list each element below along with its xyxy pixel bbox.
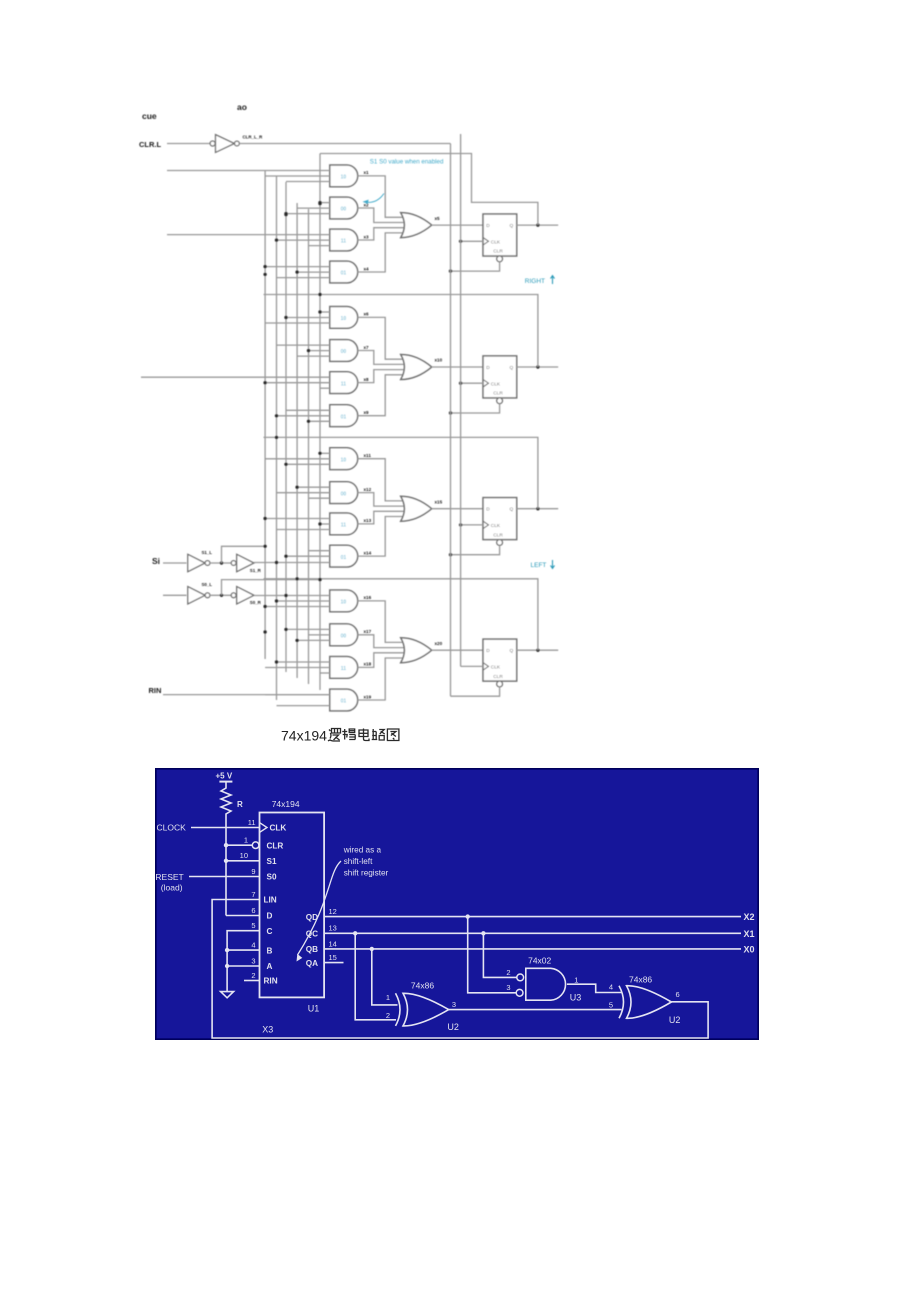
svg-text:6: 6 <box>251 906 255 915</box>
wire stub A9 row1 <box>286 409 330 411</box>
svg-text:x19: x19 <box>364 694 372 699</box>
svg-text:3: 3 <box>251 956 255 965</box>
wire A18 output <box>358 653 404 668</box>
wire A3 output <box>358 228 404 240</box>
and gate A18 (11) <box>330 657 358 679</box>
and gate A16 (10) <box>330 590 358 612</box>
svg-text:x14: x14 <box>364 550 372 555</box>
svg-text:X1: X1 <box>744 929 755 939</box>
svg-text:3: 3 <box>506 983 510 992</box>
wire A1 output <box>358 176 404 217</box>
svg-text:S1 S0 value when enabled: S1 S0 value when enabled <box>370 159 444 166</box>
ground <box>221 992 234 998</box>
svg-text:S1: S1 <box>267 857 277 866</box>
and gate A4 (01) <box>330 261 358 283</box>
caption glyph dian <box>359 729 369 741</box>
wire CLR bus <box>239 143 450 145</box>
svg-text:x13: x13 <box>364 518 372 523</box>
svg-text:11: 11 <box>341 381 347 387</box>
wire A2 output <box>358 208 404 223</box>
wire stub A4 row1 <box>265 266 330 268</box>
svg-text:2: 2 <box>251 971 255 980</box>
wire QC to U3 pin2 <box>481 931 485 935</box>
wire stub A17 row2 <box>309 634 330 636</box>
wire stub A9 row2 <box>277 415 330 417</box>
flip-flop FF2 <box>483 356 517 398</box>
svg-text:11: 11 <box>248 818 256 827</box>
svg-text:S1_R: S1_R <box>250 568 262 573</box>
svg-text:2: 2 <box>386 1011 390 1020</box>
svg-text:12: 12 <box>329 907 337 916</box>
svg-text:CLK: CLK <box>270 824 287 833</box>
wire CLR return FF2 <box>451 404 500 413</box>
wire stub A11 row1 <box>320 452 330 454</box>
svg-text:C: C <box>267 927 273 936</box>
svg-text:Si: Si <box>152 556 160 566</box>
svg-text:1: 1 <box>574 976 578 985</box>
wire stub A11 row3 <box>286 463 330 465</box>
wire stub A2 row3 <box>286 213 330 215</box>
svg-text:A: A <box>267 962 273 971</box>
caption glyph ji <box>342 729 355 740</box>
and gate A13 (11) <box>330 513 358 535</box>
svg-text:S0_R: S0_R <box>250 600 262 605</box>
svg-text:x4: x4 <box>364 266 370 271</box>
wire stub A16 row2 <box>277 600 330 602</box>
wire stub A18 row3 <box>320 672 330 674</box>
wire stub A13 row2 <box>320 523 330 525</box>
svg-text:CLR_L_R: CLR_L_R <box>243 135 264 140</box>
svg-text:+5 V: +5 V <box>216 772 233 781</box>
wire OR3 to FF D <box>432 508 483 510</box>
svg-text:D: D <box>486 648 490 654</box>
wire CLR return FF3 <box>451 545 500 554</box>
wire riser S1_L <box>222 546 266 563</box>
svg-text:R: R <box>237 800 243 809</box>
svg-text:15: 15 <box>329 953 337 962</box>
svg-text:x17: x17 <box>364 629 372 634</box>
svg-text:CLR: CLR <box>493 532 503 538</box>
junction A <box>225 964 229 968</box>
wire stub A8 row2 <box>265 382 330 384</box>
wire OR2 to FF D <box>432 366 483 368</box>
svg-text:10: 10 <box>341 600 347 606</box>
svg-text:X3: X3 <box>262 1025 273 1035</box>
and gate A14 (01) <box>330 545 358 567</box>
wire vertical bus B5 <box>319 154 321 691</box>
svg-text:00: 00 <box>341 349 347 355</box>
xor gate U2a 74x86 <box>396 993 401 1026</box>
svg-text:14: 14 <box>329 939 337 948</box>
svg-text:ao: ao <box>237 102 247 112</box>
svg-text:01: 01 <box>341 271 347 277</box>
svg-text:CLOCK: CLOCK <box>157 823 187 833</box>
svg-text:QB: QB <box>306 945 318 954</box>
inverter S0_R <box>231 593 236 598</box>
wire S1_L input <box>163 562 187 564</box>
annotation arrow <box>298 861 342 955</box>
wire Q1 feedback <box>320 154 538 226</box>
wire stub A2 row1 <box>320 202 330 204</box>
wire stub A8 row3 <box>320 387 330 389</box>
wire stub A1 row2 <box>265 175 330 177</box>
svg-text:10: 10 <box>341 316 347 322</box>
wire A11 output <box>358 459 404 501</box>
wire stub A11 row2 <box>265 458 330 460</box>
or gate O2 <box>401 355 432 380</box>
caption glyph luo <box>328 729 341 742</box>
clr bubble FF2 <box>497 398 503 404</box>
svg-text:U2: U2 <box>447 1022 459 1032</box>
svg-text:00: 00 <box>341 207 347 213</box>
svg-text:RIN: RIN <box>149 686 162 695</box>
clr bubble FF4 <box>497 681 503 687</box>
svg-text:CLK: CLK <box>491 240 501 246</box>
svg-text:CLR: CLR <box>493 249 503 255</box>
svg-text:CLR: CLR <box>267 841 284 850</box>
clk edge triangle <box>260 823 268 833</box>
svg-text:01: 01 <box>341 555 347 561</box>
wire A14 output <box>358 517 404 557</box>
svg-text:9: 9 <box>251 867 255 876</box>
wire between inverters S1_L <box>210 562 231 564</box>
svg-text:shift-left: shift-left <box>344 857 373 866</box>
wire A8 output <box>358 370 404 383</box>
svg-text:74x194: 74x194 <box>272 799 300 809</box>
junction CLR <box>224 843 228 847</box>
svg-text:S0: S0 <box>267 873 277 882</box>
wire stub A1 row3 <box>286 181 330 183</box>
wire stub A2 row2 <box>297 207 330 209</box>
wire vertical bus B1 <box>276 176 278 700</box>
or gate O4 <box>401 638 432 663</box>
wire S0_L input <box>163 594 187 596</box>
svg-text:01: 01 <box>341 699 347 705</box>
wire A6 output <box>358 317 404 359</box>
svg-text:74x194: 74x194 <box>281 728 327 744</box>
svg-text:CLK: CLK <box>491 523 501 529</box>
wire CLK to FF2 <box>461 382 483 384</box>
wire A9 output <box>358 375 404 416</box>
wire stub A6 row3 <box>265 322 330 324</box>
chip U1 74x194 <box>260 813 325 998</box>
wire OR4 to FF D <box>432 649 483 651</box>
svg-text:CLR: CLR <box>493 391 503 397</box>
wire Q1 output <box>517 224 559 226</box>
wire QB to U2a pin1 <box>370 947 374 951</box>
svg-text:D: D <box>486 507 490 513</box>
svg-text:00: 00 <box>341 491 347 497</box>
svg-text:CLK: CLK <box>491 665 501 671</box>
junction dots on buses <box>318 293 321 296</box>
wire OR1 to FF D <box>432 224 483 226</box>
wire X3 feedback to LIN <box>212 900 708 1039</box>
svg-text:shift register: shift register <box>344 869 389 878</box>
svg-text:13: 13 <box>329 924 337 933</box>
svg-text:x5: x5 <box>435 216 441 221</box>
wire stub A13 row1 <box>265 518 330 520</box>
wire stub A9 row3 <box>309 420 330 422</box>
svg-text:S0_L: S0_L <box>202 582 213 587</box>
wire stub A3 row2 <box>277 239 330 241</box>
svg-text:x7: x7 <box>364 345 370 350</box>
wire A12 output <box>358 493 404 507</box>
and gate A2 (00) <box>330 197 358 219</box>
wire CLR return FF1 <box>451 262 500 271</box>
svg-text:RIN: RIN <box>264 977 278 986</box>
wire stub A18 row2 <box>265 667 330 669</box>
svg-text:U2: U2 <box>669 1015 681 1025</box>
cyan arrow to x2 <box>366 194 384 203</box>
svg-text:11: 11 <box>341 523 347 529</box>
wire A7 output <box>358 351 404 365</box>
svg-text:x20: x20 <box>435 641 443 646</box>
wire input IN2 <box>167 234 330 236</box>
svg-text:x9: x9 <box>364 410 370 415</box>
wire QA stub <box>324 962 343 964</box>
svg-text:10: 10 <box>240 851 248 860</box>
wire U2a out to U2b pin5 <box>449 1009 622 1011</box>
svg-text:5: 5 <box>609 1001 613 1010</box>
wire Q2 feedback <box>264 295 538 368</box>
svg-text:1: 1 <box>244 836 248 845</box>
wire between inverters S0_L <box>210 594 231 596</box>
wire Q3 output <box>517 508 559 510</box>
wire stub A19 row3 <box>277 705 330 707</box>
svg-text:x16: x16 <box>364 595 372 600</box>
svg-text:X0: X0 <box>744 945 755 955</box>
wire stub A7 row3 <box>297 355 330 357</box>
and gate A8 (11) <box>330 372 358 394</box>
wire RESET <box>189 876 260 878</box>
and gate A17 (00) <box>330 624 358 646</box>
wire A16 output <box>358 601 404 643</box>
svg-text:10: 10 <box>341 175 347 181</box>
svg-text:Q: Q <box>510 648 514 654</box>
wire Q4 feedback <box>264 579 538 650</box>
svg-text:74x02: 74x02 <box>528 956 551 966</box>
wire CLR return FF4 <box>451 687 500 696</box>
and gate A3 (11) <box>330 229 358 251</box>
svg-text:7: 7 <box>251 890 255 899</box>
blue schematic panel <box>155 768 759 1040</box>
wire A13 output <box>358 511 404 524</box>
resistor R <box>221 782 231 817</box>
svg-text:LIN: LIN <box>264 896 277 905</box>
svg-text:01: 01 <box>341 414 347 420</box>
caption glyph tu <box>387 729 399 741</box>
wire Q4 output <box>517 649 559 651</box>
wire A4 output <box>358 233 404 272</box>
and gate A6 (10) <box>330 307 358 329</box>
svg-text:2: 2 <box>506 968 510 977</box>
wire CLR.L to inverter <box>167 143 210 145</box>
svg-text:x11: x11 <box>364 453 372 458</box>
svg-text:CLK: CLK <box>491 381 501 387</box>
flip-flop FF1 <box>483 214 517 256</box>
inverter CLR.L <box>210 141 215 146</box>
svg-text:RESET: RESET <box>155 872 183 882</box>
wire input IN1 <box>167 170 330 172</box>
svg-text:QA: QA <box>306 959 318 968</box>
and gate A9 (01) <box>330 405 358 427</box>
svg-text:cue: cue <box>142 111 157 121</box>
svg-text:Q: Q <box>510 365 514 371</box>
wire CLK to FF1 <box>461 240 483 242</box>
nor gate U3 74x02 <box>526 968 566 1000</box>
wire stub A12 row2 <box>277 492 330 494</box>
svg-text:X2: X2 <box>744 912 755 922</box>
svg-text:3: 3 <box>452 1000 456 1009</box>
wire pullup bus <box>225 817 227 916</box>
inverter S1_R <box>231 561 236 566</box>
wire QD X2 <box>324 916 741 918</box>
wire vertical bus B3 <box>296 203 298 678</box>
svg-text:LEFT: LEFT <box>531 562 547 569</box>
wire stub A14 row2 <box>286 555 330 557</box>
svg-text:Q: Q <box>510 223 514 229</box>
svg-text:4: 4 <box>609 983 613 992</box>
svg-text:x18: x18 <box>364 662 372 667</box>
svg-text:S1_L: S1_L <box>202 550 213 555</box>
svg-text:CLR.L: CLR.L <box>139 140 161 149</box>
svg-text:5: 5 <box>251 921 255 930</box>
svg-text:U3: U3 <box>570 993 582 1003</box>
wire stub A4 row2 <box>297 271 330 273</box>
caption glyph lu <box>372 729 385 740</box>
wire QB X0 <box>324 948 741 950</box>
and gate A7 (00) <box>330 340 358 362</box>
svg-text:D: D <box>486 365 490 371</box>
wire CLK bus <box>460 134 462 666</box>
wire S0_R output <box>254 595 330 597</box>
wire RIN stub <box>244 980 260 982</box>
svg-text:Q: Q <box>510 507 514 513</box>
svg-text:11: 11 <box>341 239 347 245</box>
wire QD to U3 pin3 <box>466 914 470 918</box>
svg-text:10: 10 <box>341 457 347 463</box>
wire A17 output <box>358 635 404 648</box>
wire CLOCK <box>191 827 260 829</box>
svg-text:U1: U1 <box>308 1004 320 1014</box>
wire RIN input <box>163 694 330 696</box>
wire stub A13 row3 <box>277 529 330 531</box>
and gate A11 (10) <box>330 448 358 470</box>
svg-text:00: 00 <box>341 634 347 640</box>
wire stub A12 row1 <box>297 486 330 488</box>
wire QC to U2a pin2 <box>353 931 357 935</box>
wire Q3 feedback <box>264 437 538 508</box>
junction S1 <box>224 859 228 863</box>
wire CLK to FF4 <box>461 665 483 667</box>
wire S1_R output <box>254 562 330 564</box>
svg-text:x15: x15 <box>435 499 443 504</box>
svg-text:74x86: 74x86 <box>411 981 434 991</box>
wire ground bus <box>227 931 259 992</box>
wire stub A7 row1 <box>277 344 330 346</box>
clr bubble FF1 <box>497 256 503 262</box>
wire stub A3 row3 <box>309 245 330 247</box>
wire QC X1 <box>324 932 741 934</box>
wire stub A14 row1 <box>309 550 330 552</box>
wire stub A12 row3 <box>309 497 330 499</box>
wire riser S0_L <box>222 580 321 596</box>
flip-flop FF4 <box>483 639 517 681</box>
and gate A12 (00) <box>330 482 358 504</box>
svg-text:x10: x10 <box>435 358 443 363</box>
junction B <box>225 948 229 952</box>
or gate O3 <box>401 496 432 521</box>
wire stub A18 row1 <box>277 661 330 663</box>
clr bubble FF3 <box>497 540 503 546</box>
svg-text:B: B <box>267 946 273 955</box>
xor gate U2b 74x86 <box>619 986 624 1019</box>
svg-text:6: 6 <box>676 990 680 999</box>
svg-text:1: 1 <box>386 993 390 1002</box>
svg-text:x1: x1 <box>364 170 370 175</box>
and gate A19 (01) <box>330 689 358 711</box>
svg-text:D: D <box>267 912 273 921</box>
wire stub A6 row1 <box>320 311 330 313</box>
svg-text:x12: x12 <box>364 487 372 492</box>
svg-text:11: 11 <box>341 666 347 672</box>
svg-text:RIGHT: RIGHT <box>525 278 545 285</box>
wire U3 out to U2b pin4 <box>567 984 622 992</box>
wire vertical bus B4 <box>308 209 310 684</box>
svg-text:74x86: 74x86 <box>629 975 652 985</box>
wire stub A16 row3 <box>265 606 330 608</box>
wire Q2 output <box>517 366 559 368</box>
wire vertical bus B2 <box>285 182 287 672</box>
and gate A1 (10) <box>330 165 358 187</box>
svg-text:D: D <box>486 223 490 229</box>
wire CLK to FF3 <box>461 524 483 526</box>
wire stub A6 row2 <box>286 317 330 319</box>
or gate O1 <box>401 213 432 238</box>
wire input IN3 <box>141 376 330 378</box>
wire stub A19 row1 <box>265 694 330 696</box>
wire vertical bus B0 <box>264 171 266 660</box>
svg-text:x6: x6 <box>364 312 370 317</box>
svg-text:wired as a: wired as a <box>343 846 382 855</box>
clr bubble <box>252 842 259 849</box>
wire stub A17 row1 <box>286 628 330 630</box>
wire stub A17 row3 <box>297 639 330 641</box>
wire stub A7 row2 <box>309 350 330 352</box>
svg-text:x8: x8 <box>364 377 370 382</box>
svg-text:CLR: CLR <box>493 674 503 680</box>
wire stub A4 row3 <box>277 277 330 279</box>
svg-text:(load): (load) <box>161 883 183 893</box>
svg-text:x3: x3 <box>364 234 370 239</box>
inverter S1_L <box>188 554 205 571</box>
inverter S0_L <box>188 587 205 604</box>
wire A19 output <box>358 658 404 700</box>
svg-text:4: 4 <box>251 941 255 950</box>
flip-flop FF3 <box>483 498 517 540</box>
